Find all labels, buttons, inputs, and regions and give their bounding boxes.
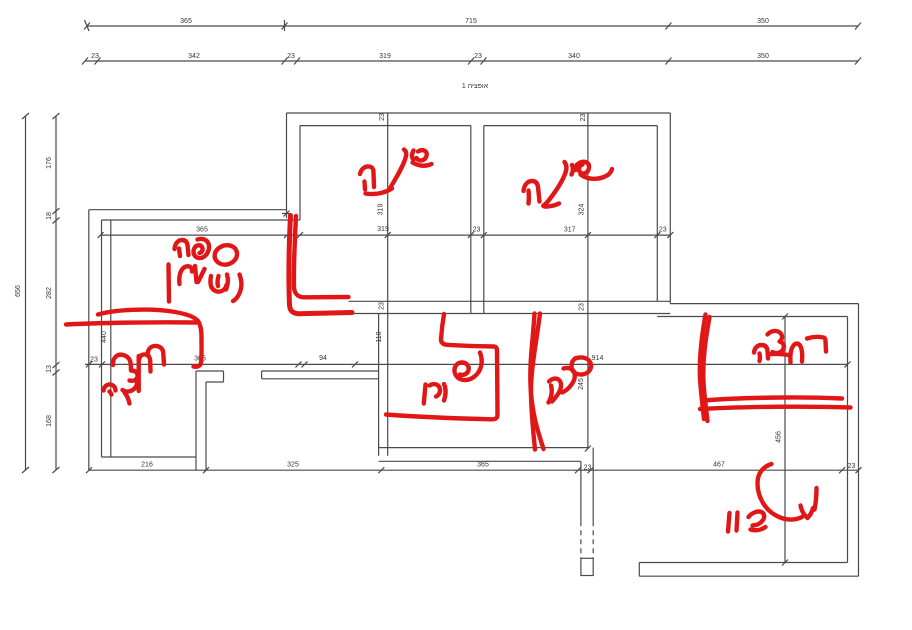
svg-text:365: 365 bbox=[180, 18, 192, 25]
red washroom rotated tsadi bumps bbox=[123, 371, 138, 392]
kitchen bottom wall bbox=[379, 448, 589, 462]
svg-text:340: 340 bbox=[568, 53, 580, 60]
svg-text:23: 23 bbox=[584, 465, 592, 472]
red bathroom label het bbox=[790, 344, 802, 363]
svg-text:23: 23 bbox=[659, 227, 667, 234]
living room outer left wall bbox=[88, 210, 90, 471]
interior dimension line y235 bbox=[101, 234, 671, 236]
svg-text:319: 319 bbox=[377, 226, 389, 233]
red kitchen2 big arc bbox=[758, 464, 803, 520]
red sofa2 rotated pe bbox=[562, 368, 575, 393]
red right horizontal line 1 bbox=[704, 397, 842, 400]
svg-text:715: 715 bbox=[465, 18, 477, 25]
red kitchen2 label bet bbox=[749, 512, 766, 531]
closet stub wall bbox=[196, 371, 224, 470]
tick bbox=[855, 23, 861, 30]
ticks y470 bbox=[86, 467, 862, 473]
svg-text:94: 94 bbox=[319, 355, 327, 362]
red bedroom1 label he bbox=[360, 166, 374, 189]
right section inner right wall bbox=[847, 317, 849, 563]
red bathroom label resh bbox=[807, 337, 826, 352]
red bedroom2 label nun bbox=[543, 162, 566, 207]
bedroom1 inner walls bbox=[300, 126, 471, 314]
outer top wall bedrooms bbox=[287, 112, 671, 114]
red right wavy stroke 1 bbox=[700, 315, 706, 420]
svg-text:23: 23 bbox=[91, 53, 99, 60]
ticks 456 bbox=[782, 314, 788, 566]
svg-text:23: 23 bbox=[379, 302, 386, 310]
svg-text:245: 245 bbox=[578, 378, 585, 390]
red washroom rotated het bar bbox=[136, 356, 140, 391]
svg-text:216: 216 bbox=[141, 462, 153, 469]
red left straight line bbox=[66, 322, 196, 324]
svg-text:319: 319 bbox=[378, 204, 385, 216]
red sofa label he bbox=[175, 240, 189, 256]
svg-text:325: 325 bbox=[287, 462, 299, 469]
bedroom1 outer left wall bbox=[286, 113, 288, 210]
svg-text:176: 176 bbox=[46, 157, 53, 169]
red washroom rotated he arch bbox=[104, 384, 116, 394]
svg-text:319: 319 bbox=[379, 53, 391, 60]
right section inner top wall bbox=[657, 316, 847, 318]
bedrooms bottom wall lines bbox=[349, 301, 671, 313]
lower wall column dashed part bbox=[581, 521, 593, 558]
red right horizontal line 2 bbox=[700, 407, 851, 409]
red bedroom1 label nun bbox=[389, 150, 406, 191]
svg-text:440: 440 bbox=[101, 331, 108, 343]
red table label het bbox=[179, 266, 196, 284]
bathroom vertical dim line 456 bbox=[784, 317, 786, 563]
svg-text:23: 23 bbox=[580, 114, 587, 122]
red kitchen label mem bbox=[424, 384, 446, 404]
living room outer top wall bbox=[89, 209, 287, 211]
red right wavy stroke 2 bbox=[703, 317, 709, 421]
center dim line bedroom1 column bbox=[387, 113, 389, 364]
svg-text:350: 350 bbox=[757, 18, 769, 25]
red kitchen counter outline bbox=[386, 314, 498, 419]
svg-text:23: 23 bbox=[379, 113, 386, 121]
tick bbox=[22, 113, 29, 473]
ticks y235 bbox=[98, 232, 674, 238]
red kitchen2 label mem bbox=[801, 488, 817, 518]
red L stroke outer bbox=[289, 216, 352, 314]
red bedroom2 label he bbox=[524, 181, 540, 204]
lower wall column end box bbox=[581, 558, 593, 575]
red table label final nun bbox=[166, 265, 171, 302]
main dimension line y364 bbox=[85, 363, 848, 365]
right section outer top wall bbox=[670, 303, 858, 305]
red bedroom1 underline bbox=[366, 189, 393, 195]
red L stroke inner bbox=[294, 216, 349, 297]
left vertical dimension line 1 bbox=[25, 116, 27, 470]
kitchen stub wall left bbox=[262, 371, 379, 379]
right section bottom walls bbox=[639, 563, 858, 577]
svg-text:23: 23 bbox=[473, 227, 481, 234]
center dim line bedroom2 column bbox=[587, 113, 589, 449]
svg-text:324: 324 bbox=[579, 204, 586, 216]
tick bbox=[585, 446, 591, 452]
red bathroom label he bbox=[754, 345, 768, 361]
hall wall vertical below bedroom1 bbox=[379, 314, 388, 456]
ticks line2 bbox=[82, 58, 861, 65]
red table label vav slash bbox=[198, 269, 205, 282]
svg-text:13: 13 bbox=[46, 365, 53, 373]
red left arch line bbox=[98, 310, 202, 367]
svg-text:אופציה 1: אופציה 1 bbox=[462, 83, 489, 90]
svg-text:18: 18 bbox=[46, 212, 53, 220]
svg-text:23: 23 bbox=[848, 463, 856, 470]
tick bbox=[282, 20, 288, 31]
svg-text:656: 656 bbox=[15, 285, 22, 297]
bedroom1/2 shared wall second line bbox=[483, 126, 485, 314]
svg-text:282: 282 bbox=[46, 287, 53, 299]
svg-text:467: 467 bbox=[713, 462, 725, 469]
left vertical dimension line 2 bbox=[55, 116, 57, 470]
red bedroom1 label shin bbox=[412, 150, 432, 166]
ticks y364 bbox=[86, 361, 851, 367]
top dimension line 1 bbox=[87, 25, 858, 27]
bedroom2 outer right wall bbox=[669, 113, 671, 304]
red washroom rotated het arch bbox=[139, 354, 151, 371]
red washroom rotated he leg bbox=[125, 393, 130, 404]
svg-text:23: 23 bbox=[287, 53, 295, 60]
svg-text:317: 317 bbox=[564, 227, 576, 234]
red wavy divider stroke 2 bbox=[530, 314, 543, 450]
red kitchen2 label het bbox=[728, 513, 738, 532]
svg-text:23: 23 bbox=[579, 303, 586, 311]
red sofa2 rotated samekh bbox=[572, 357, 592, 374]
svg-text:110: 110 bbox=[376, 331, 383, 342]
svg-text:342: 342 bbox=[188, 53, 200, 60]
red kitchen label tet bbox=[454, 353, 481, 381]
lower wall column solid part bbox=[581, 448, 593, 522]
right section outer right wall bbox=[858, 304, 860, 577]
svg-text:914: 914 bbox=[592, 355, 604, 362]
svg-text:365: 365 bbox=[477, 461, 489, 468]
red bedroom2 label shin bbox=[575, 162, 612, 179]
red table label shin bbox=[210, 275, 227, 292]
red sofa2 rotated he bbox=[549, 379, 562, 403]
red washroom rotated resh bbox=[148, 346, 164, 365]
red sofa label samekh bbox=[215, 245, 237, 264]
tick bbox=[84, 20, 90, 31]
bedroom2 inner walls bbox=[484, 126, 658, 302]
red sofa label pe bbox=[194, 239, 210, 258]
REDWORK bbox=[66, 150, 851, 532]
red bathroom label tsadi bbox=[768, 331, 789, 355]
red bedroom2 label yud bbox=[572, 165, 573, 175]
red table label vav bbox=[233, 275, 241, 302]
living room vertical dim line 440 bbox=[110, 220, 112, 457]
svg-text:365: 365 bbox=[196, 227, 208, 234]
red wavy divider stroke 1 bbox=[531, 314, 540, 450]
svg-text:23: 23 bbox=[474, 53, 482, 60]
tick bbox=[666, 23, 672, 30]
ticks left line2 bbox=[53, 113, 60, 473]
corner cross tick bbox=[282, 209, 291, 218]
top dimension line 2 bbox=[85, 60, 858, 62]
bottom dimension line y470 bbox=[89, 469, 859, 471]
living room inner walls bbox=[102, 220, 301, 457]
svg-text:23: 23 bbox=[90, 357, 98, 364]
svg-text:456: 456 bbox=[776, 431, 783, 443]
svg-text:350: 350 bbox=[757, 53, 769, 60]
red washroom rotated tsadi arch bbox=[113, 355, 131, 370]
svg-text:168: 168 bbox=[46, 415, 53, 427]
